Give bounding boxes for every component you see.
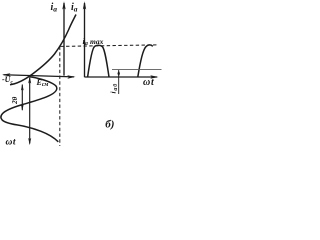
- svg-text:ωt: ωt: [143, 77, 155, 88]
- svg-text:б): б): [105, 118, 114, 130]
- svg-text:ωt: ωt: [6, 137, 17, 147]
- svg-text:-Uc: -Uc: [2, 75, 13, 85]
- svg-text:mах: mах: [90, 37, 104, 46]
- svg-text:iа: iа: [71, 2, 78, 14]
- svg-text:iа0: iа0: [109, 83, 119, 94]
- svg-text:iа: iа: [51, 2, 58, 14]
- svg-text:2θ: 2θ: [11, 96, 19, 105]
- svg-text:iа: iа: [83, 36, 88, 47]
